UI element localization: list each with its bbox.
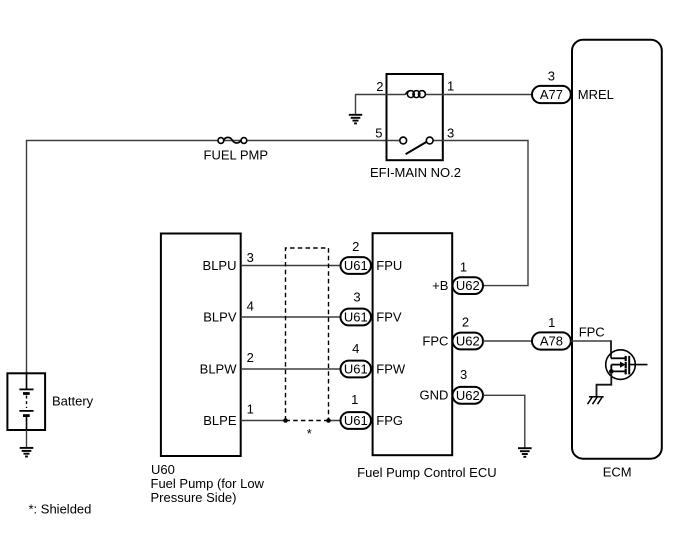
- wire relay pin3 to +B (U62): [443, 141, 528, 286]
- svg-text:4: 4: [247, 299, 254, 314]
- block U60 Fuel Pump: [161, 234, 241, 457]
- wire battery positive to fuse (left vertical + top horizontal): [27, 141, 387, 374]
- svg-text:FPC: FPC: [422, 333, 448, 348]
- svg-text:+B: +B: [432, 278, 448, 293]
- svg-text:3: 3: [460, 367, 467, 382]
- svg-text:FPU: FPU: [376, 258, 402, 273]
- svg-text:U61: U61: [344, 413, 368, 428]
- connector U61 row3: [341, 361, 372, 378]
- chassis ground (ECM): [588, 397, 604, 404]
- svg-text:3: 3: [247, 250, 254, 265]
- svg-text:1: 1: [447, 79, 454, 94]
- pin labels ECU right side: [420, 278, 449, 403]
- connector U62 +B: [453, 277, 484, 294]
- svg-text:5: 5: [375, 126, 382, 141]
- svg-text:FPW: FPW: [376, 361, 406, 376]
- connector A77: [532, 86, 571, 103]
- svg-text:FUEL PMP: FUEL PMP: [204, 148, 269, 163]
- wire BLPE to FPG (solid ends): [241, 420, 341, 422]
- svg-text:3: 3: [447, 126, 454, 141]
- wire battery negative to ground: [26, 430, 28, 448]
- connector A78: [532, 332, 571, 349]
- svg-text:1: 1: [247, 402, 254, 417]
- fuse FUEL PMP: [218, 137, 247, 143]
- svg-text:MREL: MREL: [578, 87, 614, 102]
- svg-text:2: 2: [352, 239, 359, 254]
- battery: [7, 373, 45, 430]
- svg-text:BLPW: BLPW: [200, 361, 238, 376]
- relay coil L1: [405, 91, 425, 98]
- svg-text:A78: A78: [540, 334, 563, 349]
- wire BLPU to FPU: [241, 265, 341, 267]
- svg-text:3: 3: [548, 68, 555, 83]
- junction dot left shield: [283, 418, 288, 423]
- svg-text:*: Shielded: *: Shielded: [29, 502, 92, 517]
- svg-text:2: 2: [247, 350, 254, 365]
- wire relay switch row inside box: [387, 140, 443, 142]
- svg-text:1: 1: [351, 392, 358, 407]
- svg-text:U61: U61: [344, 258, 368, 273]
- svg-text:A77: A77: [540, 87, 563, 102]
- wire GND U62 to ground: [483, 395, 525, 447]
- wire BLPW to FPW: [241, 368, 341, 370]
- svg-text:BLPV: BLPV: [203, 309, 237, 324]
- connector U61 row1: [341, 257, 372, 274]
- connector U62 FPC: [453, 333, 484, 350]
- svg-text:FPV: FPV: [376, 309, 402, 324]
- svg-text:2: 2: [462, 314, 469, 329]
- svg-text:FPG: FPG: [376, 413, 403, 428]
- svg-text:GND: GND: [420, 388, 449, 403]
- junction dot right shield: [326, 418, 331, 423]
- connector U61 row4: [341, 412, 372, 429]
- block Fuel Pump Control ECU: [373, 233, 453, 455]
- pin labels ECU left side: [376, 258, 406, 428]
- svg-text:BLPU: BLPU: [203, 258, 237, 273]
- pin numbers U60 side: [247, 250, 254, 417]
- relay EFI-MAIN NO.2 box: [387, 74, 443, 160]
- shield dashed bottom segment: [286, 420, 329, 422]
- svg-text:Battery: Battery: [52, 394, 94, 409]
- svg-text:U61: U61: [344, 362, 368, 377]
- relay pin numbers: [375, 79, 454, 141]
- wire transistor source to chassis ground: [597, 371, 612, 396]
- svg-text:U62: U62: [456, 334, 480, 349]
- wire A78 into ECM to transistor drain: [571, 340, 611, 342]
- wire relay coil row (pin2 left lead + pin1 right lead to A77): [356, 95, 533, 115]
- svg-text:*: *: [307, 426, 312, 441]
- connector U62 GND: [453, 387, 484, 404]
- svg-text:U62: U62: [456, 388, 480, 403]
- svg-text:U61: U61: [344, 310, 368, 325]
- svg-text:EFI-MAIN NO.2: EFI-MAIN NO.2: [370, 165, 461, 180]
- ground (relay coil pin 2): [349, 115, 362, 124]
- relay switch contacts: [400, 137, 433, 154]
- shield dashed box: [286, 248, 329, 421]
- svg-text:Fuel Pump Control ECU: Fuel Pump Control ECU: [357, 465, 496, 480]
- ground (GND wire): [518, 448, 532, 457]
- ground (battery): [20, 448, 34, 457]
- svg-text:Pressure Side): Pressure Side): [151, 490, 237, 505]
- pin labels U60 side: [200, 258, 238, 428]
- svg-text:ECM: ECM: [603, 465, 632, 480]
- svg-text:BLPE: BLPE: [203, 413, 237, 428]
- svg-text:2: 2: [376, 79, 383, 94]
- svg-text:1: 1: [548, 315, 555, 330]
- svg-text:U62: U62: [456, 278, 480, 293]
- wire BLPV to FPV: [241, 316, 341, 318]
- svg-text:FPC: FPC: [579, 325, 605, 340]
- ECM block: [572, 40, 662, 459]
- svg-text:3: 3: [353, 290, 360, 305]
- svg-text:4: 4: [352, 341, 359, 356]
- wire FPC U62 to A78: [483, 340, 532, 342]
- transistor Q1 (MOSFET in ECM): [606, 350, 648, 380]
- connector U61 row2: [341, 309, 372, 326]
- svg-text:1: 1: [460, 260, 467, 275]
- svg-text:U60: U60: [151, 462, 175, 477]
- svg-text:Fuel Pump (for Low: Fuel Pump (for Low: [151, 476, 265, 491]
